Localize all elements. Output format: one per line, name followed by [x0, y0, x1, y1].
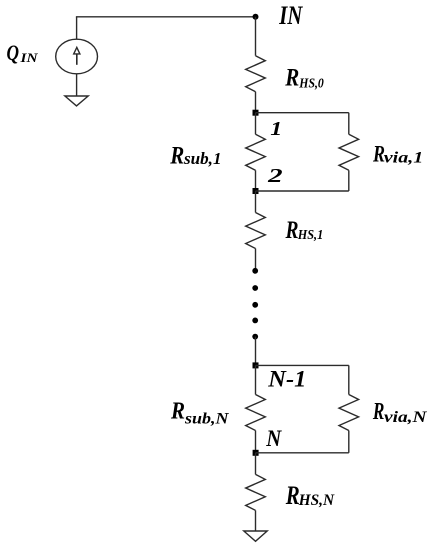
node N-1: [253, 362, 259, 368]
label R_via,N: [372, 399, 427, 426]
wire node N to R_HS,N: [255, 453, 257, 475]
wire sectionN bottom horizontal: [256, 452, 349, 454]
label R_sub,1: [169, 140, 221, 169]
resistor R_HS,0: [246, 56, 266, 92]
svg-text:N: N: [265, 426, 282, 452]
svg-text:R: R: [169, 140, 184, 169]
resistor R_sub,1: [246, 134, 266, 170]
svg-text:HS,0: HS,0: [298, 76, 323, 91]
label R_sub,N: [170, 397, 230, 427]
svg-text:R: R: [284, 64, 299, 91]
svg-text:sub,N: sub,N: [184, 411, 230, 428]
wire right branch 1 top vertical: [348, 113, 350, 135]
wire R_HS,0 to node 1: [255, 92, 257, 113]
svg-text:2: 2: [267, 165, 283, 187]
label R_HS,N: [285, 481, 336, 510]
svg-text:R: R: [285, 481, 300, 510]
current source Q_IN: [56, 39, 98, 74]
label R_HS,1: [285, 217, 323, 244]
svg-text:HS,1: HS,1: [297, 228, 323, 243]
wire source bottom vertical: [76, 74, 78, 96]
ground bottom: [244, 531, 267, 541]
resistor R_HS,1: [246, 213, 266, 249]
wire R_HS,N to ground: [255, 510, 257, 531]
resistor R_sub,N: [246, 395, 266, 431]
wire top horizontal from source to node IN: [76, 16, 256, 18]
svg-text:via,N: via,N: [384, 409, 427, 426]
label Q_IN: [7, 40, 39, 65]
svg-text:R: R: [170, 397, 185, 424]
label R_HS,0: [284, 64, 323, 91]
wire section1 bottom horizontal: [256, 190, 349, 192]
wire node 2 to R_HS,1: [255, 191, 257, 213]
node 1: [253, 110, 259, 116]
wire right branch N bottom vertical: [348, 431, 350, 453]
label R_via,1: [372, 142, 423, 168]
svg-text:1: 1: [270, 118, 282, 140]
ground under source: [65, 96, 88, 106]
resistor R_via,N: [339, 395, 359, 431]
svg-text:R: R: [285, 217, 299, 244]
wire node 1 to R_sub,1: [255, 113, 257, 135]
resistor R_via,1: [339, 134, 359, 170]
resistor R_HS,N: [246, 474, 266, 510]
svg-text:via,1: via,1: [384, 150, 424, 167]
wire R_sub,N to node N: [255, 431, 257, 453]
wire section1 top horizontal: [256, 112, 349, 114]
svg-text:R: R: [372, 399, 384, 425]
svg-text:sub,1: sub,1: [183, 149, 222, 168]
node 2: [253, 188, 259, 194]
svg-text:IN: IN: [19, 50, 38, 65]
wire R_HS,1 to dots: [255, 249, 257, 271]
wire IN to R_HS,0: [255, 17, 257, 56]
wire node N-1 to R_sub,N: [255, 365, 257, 394]
wire right branch N top vertical: [348, 365, 350, 394]
svg-text:Q: Q: [7, 40, 20, 65]
node N: [253, 450, 259, 456]
ellipsis dots: [252, 268, 258, 340]
wire R_sub,1 to node 2: [255, 170, 257, 191]
wire source top vertical: [76, 17, 78, 40]
svg-text:IN: IN: [279, 1, 304, 30]
wire dots to node N-1: [255, 337, 257, 366]
wire right branch 1 bottom vertical: [348, 170, 350, 191]
node IN: [253, 14, 259, 20]
svg-text:N-1: N-1: [267, 367, 306, 393]
wire sectionN top horizontal: [256, 364, 349, 366]
svg-text:HS,N: HS,N: [298, 492, 336, 509]
